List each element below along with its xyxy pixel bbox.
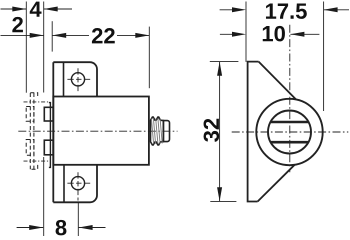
top screw hole crosshair <box>67 78 90 80</box>
dimension 2 left arrowhead <box>30 33 44 38</box>
dimension 10 right tail <box>290 33 319 35</box>
centerline left view <box>18 130 177 132</box>
bottom tab inner line <box>63 165 65 203</box>
dimension 8 label <box>56 220 67 236</box>
dimension 22 label <box>92 28 115 43</box>
dimension 8 right arrowhead <box>79 225 93 230</box>
extension line D x=149.3 <box>148 27 150 89</box>
dashed keeper lower box <box>26 140 34 156</box>
dimension 17.5 right arrowhead <box>324 7 338 12</box>
dimension 17.5 left arrowhead <box>232 7 246 12</box>
flange plate left edge <box>52 62 54 202</box>
dimension 22 right arrowhead <box>135 33 149 38</box>
dimension 4 label <box>30 2 42 17</box>
horizontal centerline right view <box>232 131 349 133</box>
dimension 22 line left segment <box>52 34 89 36</box>
dashed keeper upper box <box>26 107 34 122</box>
lower chord <box>271 141 308 144</box>
dimension 32 bottom arrowhead <box>217 187 222 201</box>
top screw hole <box>71 73 84 86</box>
dimension 22 line right segment <box>117 34 149 36</box>
dimension 2 line left tail <box>1 34 44 36</box>
plunger tip cap <box>163 121 169 142</box>
dimension 8 left arrowhead <box>29 225 43 230</box>
clip lug lower <box>44 140 53 155</box>
dashed keeper top hook <box>30 93 37 97</box>
extension line E x=78.4 (hole center) <box>77 203 79 237</box>
top mounting tab <box>53 62 97 96</box>
dimension 10 left arrowhead <box>232 32 246 37</box>
clip lug upper <box>44 107 53 121</box>
dimension 4 right arrowhead <box>44 7 58 12</box>
dashed keeper vertical 1 <box>29 93 31 169</box>
dimension 10 label <box>263 26 285 42</box>
dashed keeper vertical 2 <box>33 93 35 169</box>
bottom mounting tab <box>53 165 97 203</box>
dimension 4 line left tail <box>1 8 27 10</box>
extension line B lower x=43.7 <box>43 157 45 236</box>
upper short centerline <box>24 101 50 103</box>
plunger thread outline <box>151 117 164 145</box>
dimension 10 left tail <box>220 33 242 35</box>
top tab inner line <box>63 62 65 96</box>
dimension 4 line right tail <box>44 8 72 10</box>
dimension 17.5 label <box>266 4 307 19</box>
plate top diagonal <box>259 62 297 100</box>
extension line F x=246 <box>245 2 247 62</box>
dimension 10 right arrowhead <box>290 32 304 37</box>
dimension 2 label <box>12 17 23 32</box>
dimension 2 right arrowhead (also start of 22 line) <box>52 33 66 38</box>
catch body <box>53 97 149 165</box>
extension line A x=26.3 <box>25 2 27 93</box>
dimension 32 bottom extension <box>210 200 236 202</box>
outer circle <box>256 99 322 165</box>
lower short centerline <box>24 160 50 162</box>
dimension 32 top extension <box>210 61 239 63</box>
extension line G x=323.6 <box>323 2 325 112</box>
dimension 17.5 left tail <box>220 9 242 11</box>
dimension 32 line <box>219 62 221 202</box>
body front face line <box>49 103 51 168</box>
dimension 32 top arrowhead <box>217 62 222 76</box>
dimension 17.5 right tail <box>324 9 349 11</box>
thread flank lines <box>151 119 153 144</box>
dimension 8 line right tail <box>79 227 106 229</box>
plate bottom diagonal <box>258 165 295 202</box>
inner circle (plunger) <box>268 111 311 154</box>
upper chord <box>271 121 308 124</box>
housing plate outline <box>248 62 259 202</box>
dashed keeper bottom hook <box>30 165 37 169</box>
extension line C x=52.2 <box>51 21 53 51</box>
dimension 32 label (rotated) <box>204 119 220 142</box>
extension line B upper x=43.7 <box>43 2 45 93</box>
dimension 8 line left tail <box>17 227 44 229</box>
vertical centerline right view <box>289 25 291 173</box>
dimension 4 left arrowhead <box>12 7 26 12</box>
bottom screw hole crosshair <box>67 182 90 184</box>
bottom screw hole <box>71 177 84 190</box>
